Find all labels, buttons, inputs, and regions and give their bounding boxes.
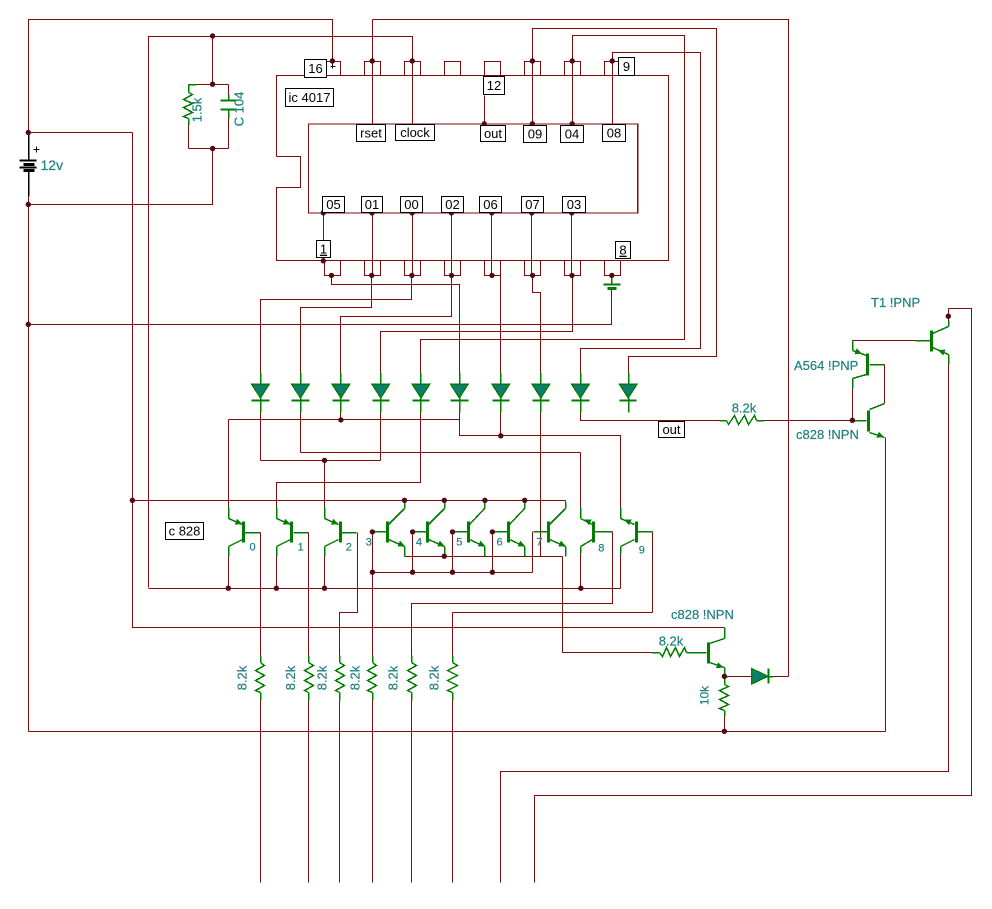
wire Q8 base to resistor R5 (412, 532, 613, 656)
transistor number 5 (456, 537, 462, 549)
label c828 !NPN (driver) (796, 427, 859, 442)
svg-text:09: 09 (528, 127, 542, 142)
svg-text:6: 6 (497, 537, 503, 549)
pin label out (IC) (481, 126, 506, 142)
svg-text:clock: clock (400, 125, 430, 140)
wire x132 rail down to y627 (133, 133, 725, 628)
wire RC tap from y36 rail (212, 37, 214, 85)
transistor number 1 (298, 542, 304, 554)
IC bottom pin bumps (pins 1..8) (325, 261, 621, 276)
plus mark pin 16 (331, 64, 336, 69)
svg-text:8.2k: 8.2k (386, 665, 401, 690)
wire LED1+LED4 cathodes to Q2 emitter (261, 413, 381, 508)
wire RC network bottom (189, 148, 229, 150)
svg-text:7: 7 (536, 537, 542, 549)
transistor Q4 (c828) (413, 501, 445, 557)
svg-text:1: 1 (320, 242, 327, 257)
svg-text:8.2k: 8.2k (732, 401, 757, 416)
part label c 828 (166, 523, 204, 540)
wire 00 label through pin3 bump (412, 213, 414, 276)
resistor 8.2k R6 (448, 656, 458, 701)
pin label clock (396, 125, 435, 141)
wire T1 collector riser (948, 309, 950, 321)
battery value 12v (41, 157, 64, 173)
svg-text:12v: 12v (41, 157, 64, 173)
LED D10 (620, 373, 637, 413)
transistor number 4 (416, 537, 422, 549)
svg-text:9: 9 (639, 545, 645, 557)
svg-text:T1 !PNP: T1 !PNP (871, 295, 920, 310)
capacitor value C 104 (232, 92, 247, 127)
label 8.2k R5 (386, 665, 401, 690)
wire Q7 base to bus end (532, 532, 534, 573)
LED D7 (492, 373, 509, 413)
LED D2 (292, 373, 310, 413)
wire pin1 to LED6 (332, 276, 460, 373)
label 8.2k R2 (283, 665, 298, 690)
transistor Q5 (c828) (453, 501, 486, 557)
wire LED6+LED7 cathodes to Q9 emitter (460, 413, 621, 508)
wire 07 label through pin6 bump (531, 213, 533, 276)
svg-text:01: 01 (365, 197, 379, 212)
wire output collector bottom run 2 (535, 309, 972, 883)
LED D1 (252, 373, 270, 413)
svg-text:5: 5 (456, 537, 462, 549)
label 10k (698, 685, 712, 705)
wire LED2 cathode to Q8 emitter (301, 413, 581, 508)
transistor number 9 (639, 545, 645, 557)
wire pin6 to LED8 (533, 276, 541, 373)
transistor c828 driver (NPN) (854, 404, 885, 438)
wire pin14 bump to clock label (412, 61, 414, 127)
svg-text:16: 16 (308, 61, 322, 76)
transistor number 8 (598, 543, 604, 555)
pin label 05 (323, 197, 345, 213)
svg-text:8: 8 (598, 543, 604, 555)
transistor number 0 (250, 542, 256, 554)
wire Q2 base to resistor R3 (340, 533, 358, 656)
wire pin5 to LED7 (500, 276, 502, 373)
wire A564 base to c828 collector (884, 365, 886, 404)
transistor Q0 (c828) (229, 508, 261, 557)
wire pin3 to LED1 (261, 276, 412, 373)
wire clock rail y36 to pin bump 3 (149, 37, 413, 588)
node label out (659, 422, 685, 438)
wire battery minus to RC bottom (29, 149, 213, 205)
svg-text:02: 02 (445, 197, 459, 212)
svg-text:c828 !NPN: c828 !NPN (671, 607, 734, 622)
LED D9 (572, 373, 590, 413)
wire 10k bottom to ground rail (724, 717, 726, 732)
transistor T1 (PNP) (916, 321, 949, 365)
pin label 9 (619, 58, 635, 76)
transistor Q2 (c828) (325, 508, 357, 557)
wire diode anode link (729, 676, 752, 678)
wire pin 09 over top right to LED10 (533, 29, 717, 373)
IC 4017 outer package outline (277, 76, 669, 261)
svg-text:rset: rset (360, 126, 382, 141)
resistor 8.2k R4 (368, 656, 377, 701)
wire battery plus to x132 rail (29, 132, 133, 134)
svg-text:8.2k: 8.2k (426, 665, 441, 690)
label 8.2k R3 (315, 665, 330, 690)
resistor 8.2k (oscillator base) (652, 648, 687, 657)
pin label 08 (603, 125, 626, 142)
wire pin15 bump to rset label (372, 61, 374, 127)
wire Q4 base to bus (412, 532, 414, 573)
resistor 8.2k R2 (305, 656, 314, 701)
resistor 1.5k (184, 85, 197, 149)
transistor number 3 (366, 537, 372, 549)
resistor 10k (720, 677, 729, 717)
svg-text:3: 3 (366, 537, 372, 549)
wire driver emitter to ground rail (885, 438, 887, 732)
svg-text:07: 07 (525, 197, 539, 212)
pin label 01 (362, 197, 383, 213)
wire pin12 box to out label (484, 96, 486, 125)
IC name label ic 4017 (286, 89, 334, 107)
wire LED9 cathode to out net (581, 413, 720, 421)
wire Q3 base through bus to resistor R4 (372, 532, 374, 656)
wire pin11 bump to 09 label (532, 61, 534, 125)
wire pin 08 to LED9 (581, 53, 701, 373)
svg-text:2: 2 (346, 542, 352, 554)
wire 03 label through pin7 bump (571, 213, 573, 276)
pin label 16 (305, 60, 327, 78)
svg-text:4: 4 (416, 537, 422, 549)
resistor 8.2k (out net) (720, 416, 765, 425)
svg-text:8.2k: 8.2k (659, 634, 684, 649)
svg-text:08: 08 (607, 126, 621, 141)
IC inner body rectangle (309, 124, 638, 213)
svg-text:c828 !NPN: c828 !NPN (796, 427, 859, 442)
svg-text:03: 03 (567, 197, 581, 212)
wire battery minus rail down left side (28, 197, 30, 732)
wire pin2 to LED2 (301, 276, 372, 373)
pin label 06 (480, 197, 502, 213)
wire 06 label through pin5 bump (491, 213, 493, 276)
transistor Q3 (c828) (373, 501, 406, 557)
wire emitter bus y556 (405, 556, 563, 558)
pin label 07 (522, 197, 544, 213)
wire bus y588 from clock rail to Q9 collector (149, 588, 621, 590)
wire 01 label through pin2 bump (372, 213, 374, 276)
svg-text:8.2k: 8.2k (234, 665, 249, 690)
wire base bus y572 (373, 572, 533, 574)
pin label 03 (563, 197, 586, 213)
diode D11 (725, 669, 774, 685)
transistor number 7 (536, 537, 542, 549)
svg-text:A564 !PNP: A564 !PNP (794, 358, 858, 373)
LED D4 (372, 373, 390, 413)
LED D5 (412, 373, 429, 413)
LED D3 (332, 373, 349, 413)
wire +12V top rail from battery to IC pin 16 (29, 20, 333, 133)
pin label rset (357, 125, 386, 142)
svg-text:out: out (662, 422, 680, 437)
wire Q8 collector drop (580, 554, 582, 589)
wire 05 label to pin1 (323, 213, 325, 261)
label 8.2k R6 (426, 665, 441, 690)
svg-text:8.2k: 8.2k (283, 665, 298, 690)
wire LED5 cathode to Q1 emitter (277, 413, 421, 508)
transistor Q8 (c828) (581, 508, 613, 554)
wire Q5 base to bus (452, 532, 454, 573)
transistor A564 (PNP) (853, 343, 885, 389)
transistor Q9 (c828) (621, 508, 653, 554)
pin label 12 (484, 77, 505, 95)
wire Q1 base to resistor R2 (308, 533, 310, 656)
svg-text:8.2k: 8.2k (315, 665, 330, 690)
wire A564 emitter to T1 base (853, 341, 916, 343)
wire diode cathode to top rail (774, 676, 789, 678)
wire Q0 collector to bus y588 (228, 557, 230, 589)
wire LED8 cathode to emitter bus (540, 413, 542, 557)
wire Q2 collector to bus y588 (324, 557, 326, 589)
pin label 00 (401, 197, 423, 213)
ground cell symbol at pin 8 (604, 276, 621, 289)
wire pin10 bump to 04 label (572, 61, 574, 125)
svg-text:c 828: c 828 (169, 524, 201, 539)
pin label 8 (616, 242, 631, 259)
svg-text:00: 00 (404, 197, 418, 212)
pin label 04 (561, 126, 584, 143)
wire Q1 collector to bus y588 (276, 557, 278, 589)
wire rset pin up over top to diode cathode rail (373, 20, 789, 677)
IC top pin bumps (pins 16..9) (325, 62, 621, 76)
pin label 1 (317, 241, 331, 258)
wire pin9 bump to 08 label (612, 61, 614, 125)
svg-text:ic 4017: ic 4017 (289, 90, 331, 105)
transistor number 2 (346, 542, 352, 554)
wire out net resistor to transistor base (765, 420, 853, 422)
label 8.2k (out net) (732, 401, 757, 416)
wire Q9 collector drop (620, 554, 622, 589)
wire A564 collector down to c828 base (852, 389, 854, 421)
wire output emitter bottom run 1 (501, 365, 949, 883)
svg-text:9: 9 (623, 59, 630, 74)
wire Q7 emitter down to sense resistor (563, 557, 652, 653)
transistor Q1 (c828) (277, 508, 309, 557)
wire pin8 ground to battery minus rail (29, 289, 612, 325)
wire Q6 base to bus (492, 532, 494, 573)
svg-text:0: 0 (250, 542, 256, 554)
wire Q0 base to resistor R1 (260, 533, 262, 656)
pin label 09 (524, 126, 547, 143)
battery 12v (20, 135, 40, 197)
label 8.2k R1 (234, 665, 249, 690)
wire Q9 base to resistor R6 (453, 532, 653, 656)
label 8.2k R4 (348, 665, 363, 690)
wire pin4 to LED3 (341, 276, 452, 373)
svg-text:C 104: C 104 (232, 92, 247, 127)
svg-text:12: 12 (487, 78, 501, 93)
LED D6 (451, 373, 469, 413)
pin label 02 (442, 197, 464, 213)
svg-text:10k: 10k (698, 685, 712, 705)
wire pin 04 to LED5 (421, 36, 685, 373)
svg-text:04: 04 (565, 127, 579, 142)
LED D8 (532, 373, 549, 413)
svg-text:1: 1 (298, 542, 304, 554)
label 8.2k (oscillator) (659, 634, 684, 649)
wire RC network top (197, 84, 229, 86)
wire ground return y731 (29, 731, 886, 733)
svg-text:8.2k: 8.2k (348, 665, 363, 690)
resistor 8.2k R1 (256, 656, 265, 701)
wire collector bus y500 (133, 500, 566, 502)
label T1 !PNP (871, 295, 920, 310)
label c828 !NPN (oscillator) (671, 607, 734, 622)
svg-text:1.5k: 1.5k (190, 97, 205, 122)
transistor c828 oscillator (NPN) (687, 628, 725, 677)
transistor Q6 (c828) (493, 501, 526, 557)
capacitor C 104 (221, 85, 237, 149)
transistor Q7 (c828) (534, 501, 566, 557)
svg-text:8: 8 (619, 243, 626, 258)
resistor 8.2k R5 (408, 656, 417, 701)
wires resistor bottoms to board edge (261, 701, 453, 883)
wire LED3+LED6 cathodes to Q0 emitter (229, 413, 460, 508)
resistor 8.2k R3 (336, 656, 345, 701)
wire pin7 to LED4 (381, 276, 573, 373)
wire 02 label through pin4 bump (451, 213, 453, 276)
svg-text:06: 06 (483, 197, 497, 212)
transistor number 6 (497, 537, 503, 549)
resistor value 1.5k (190, 97, 205, 122)
svg-text:out: out (484, 126, 502, 141)
svg-text:05: 05 (326, 197, 340, 212)
label A564 !PNP (794, 358, 858, 373)
